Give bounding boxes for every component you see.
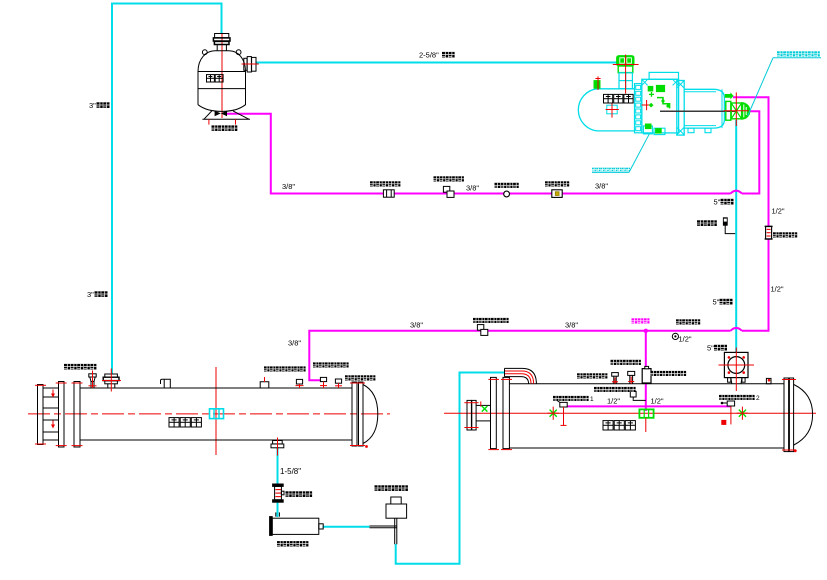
svg-text:3/8": 3/8": [288, 339, 301, 348]
svg-text:3": 3": [87, 290, 94, 299]
svg-text:3/8": 3/8": [565, 321, 578, 330]
svg-text:1-5/8": 1-5/8": [280, 467, 301, 476]
svg-text:2-5/8": 2-5/8": [419, 51, 439, 60]
svg-text:3/8": 3/8": [410, 321, 423, 330]
svg-text:1/2": 1/2": [771, 285, 784, 294]
svg-text:3/8": 3/8": [466, 184, 479, 193]
svg-text:1/2": 1/2": [679, 335, 692, 344]
svg-text:1/2": 1/2": [651, 397, 664, 406]
svg-text:3/8": 3/8": [595, 182, 608, 191]
svg-text:3": 3": [89, 101, 96, 110]
svg-text:3/8": 3/8": [282, 182, 295, 191]
svg-text:5": 5": [707, 344, 714, 353]
svg-text:5": 5": [713, 298, 720, 307]
svg-text:1/2": 1/2": [607, 397, 620, 406]
svg-text:2: 2: [756, 395, 760, 402]
svg-text:1: 1: [590, 396, 594, 403]
svg-text:5": 5": [714, 198, 721, 207]
svg-text:1/2": 1/2": [772, 207, 785, 216]
